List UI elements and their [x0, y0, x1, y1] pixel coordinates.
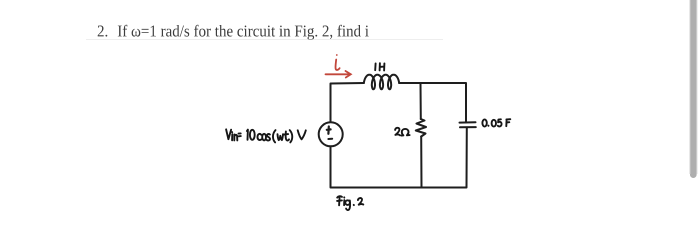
wire inductor to top-right corner — [399, 83, 466, 122]
bottom wire — [331, 147, 467, 188]
label Vin = 10cos(wt) V source value — [226, 129, 306, 142]
wire top junction down to resistor — [420, 84, 422, 120]
label 2 ohm resistor value — [395, 128, 410, 136]
label 0.05F capacitor value — [482, 119, 510, 126]
wire resistor to bottom — [420, 137, 422, 188]
wire top-left to inductor — [331, 83, 365, 122]
scrollbar thumb at right edge — [690, 0, 697, 178]
faint underline artifact — [86, 39, 443, 41]
plus sign inside source — [327, 127, 331, 134]
title text — [98, 25, 369, 40]
minus sign inside source — [328, 138, 332, 140]
label Fig. 2 caption — [337, 196, 363, 210]
resistor R1 zigzag — [416, 119, 426, 137]
capacitor C1 bottom plate — [460, 126, 476, 128]
current direction arrow shaft — [326, 73, 349, 75]
label 1H value of inductor — [375, 63, 384, 70]
current direction arrowhead — [346, 71, 351, 78]
wire capacitor to bottom-right corner — [466, 128, 468, 188]
inductor L1 1H — [364, 75, 399, 90]
dot of letter i — [336, 54, 338, 56]
capacitor C1 top plate — [460, 121, 476, 123]
current label i (red), letter body — [336, 60, 340, 70]
voltage source V1 circle — [319, 122, 343, 146]
